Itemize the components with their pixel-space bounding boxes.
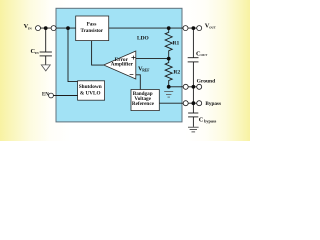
svg-text:Amplifier: Amplifier: [111, 62, 134, 68]
svg-text:& UVLO: & UVLO: [80, 91, 101, 97]
svg-text:OUT: OUT: [209, 26, 217, 30]
svg-text:bypass: bypass: [204, 118, 216, 123]
svg-text:IN: IN: [28, 26, 32, 30]
svg-text:Ground: Ground: [197, 79, 216, 85]
svg-text:EN: EN: [42, 93, 49, 98]
svg-text:Reference: Reference: [132, 101, 155, 107]
svg-text:REF: REF: [142, 68, 150, 72]
svg-text:Shutdown: Shutdown: [79, 84, 102, 90]
svg-text:R1: R1: [173, 40, 180, 46]
svg-text:Pass: Pass: [87, 22, 97, 28]
svg-text:C: C: [199, 116, 204, 123]
svg-text:LDO: LDO: [137, 36, 149, 42]
svg-text:R2: R2: [173, 69, 180, 75]
svg-text:Transistor: Transistor: [81, 28, 104, 34]
svg-text:IN: IN: [35, 51, 39, 55]
svg-text:Bypass: Bypass: [205, 101, 221, 107]
svg-text:OUT: OUT: [201, 53, 209, 57]
